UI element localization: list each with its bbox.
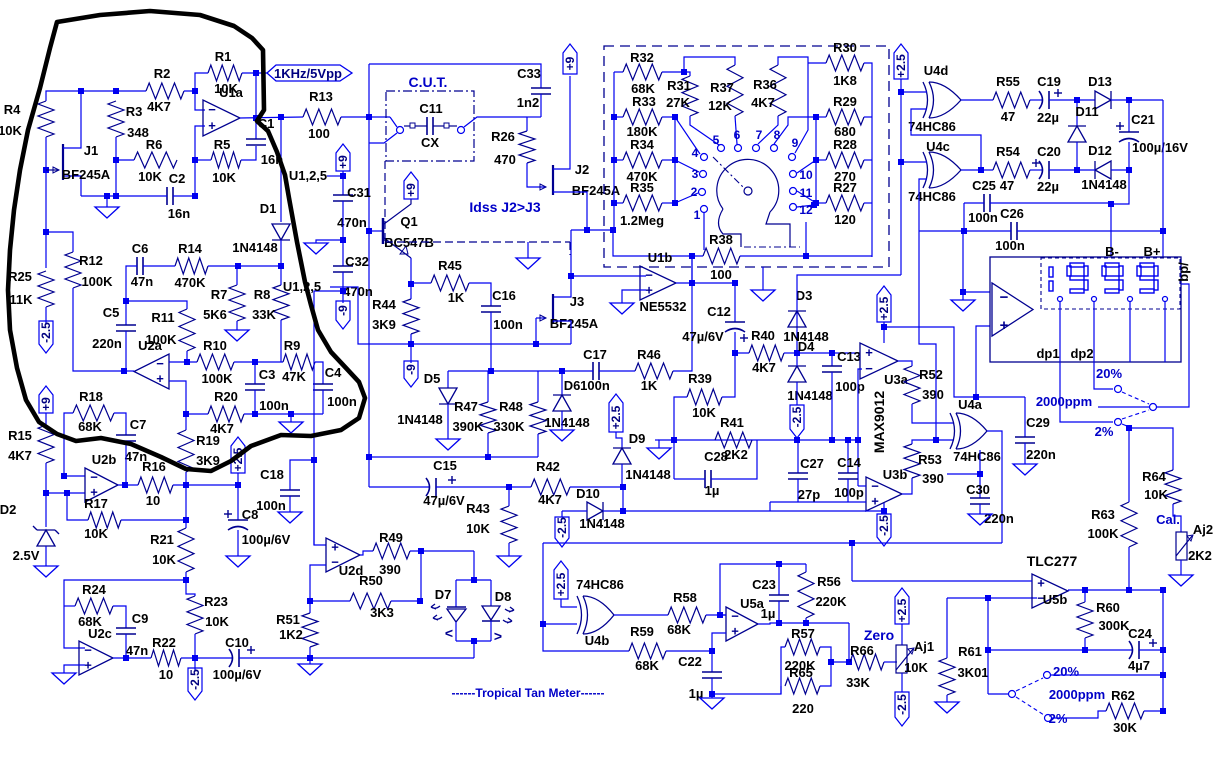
wire -2.5 rail y543 <box>543 542 1002 544</box>
wire U4d input a <box>901 91 927 93</box>
rotary bottom dash-dot <box>744 246 800 248</box>
svg-text:+: + <box>84 657 92 672</box>
node output junctions <box>776 620 782 626</box>
wire U3b output <box>902 478 912 494</box>
wire C22 bottom <box>711 678 713 694</box>
svg-text:C13: C13 <box>837 349 861 364</box>
node C13 bottom junction <box>829 437 835 443</box>
svg-text:100K: 100K <box>81 274 113 289</box>
node plus input junctions <box>43 490 49 496</box>
wire contact 4 link <box>675 117 700 154</box>
wire R5 leads <box>195 159 211 161</box>
svg-text:+: + <box>865 345 873 360</box>
resistor R49 <box>373 543 410 559</box>
wire U1a plus input <box>195 126 205 196</box>
node D6 top junction <box>559 368 565 374</box>
svg-text:−: − <box>731 609 739 624</box>
wire C25 leads <box>964 202 984 204</box>
wire D4 bottom <box>796 382 798 405</box>
rotary contact 1 <box>701 206 708 213</box>
svg-text:−: − <box>645 268 653 283</box>
diode D3 <box>796 311 798 353</box>
svg-text:R34: R34 <box>630 137 655 152</box>
wire C25 left down <box>963 203 965 231</box>
capacitor C29 <box>1015 436 1035 438</box>
svg-text:220n: 220n <box>1026 447 1056 462</box>
resistor R13 <box>303 109 341 125</box>
node y650 junction <box>985 647 991 653</box>
svg-text:R18: R18 <box>79 389 103 404</box>
power flag +2.5 U3a <box>877 286 891 322</box>
svg-text:C6: C6 <box>132 241 149 256</box>
svg-text:R39: R39 <box>688 371 712 386</box>
wire U5a minus up <box>720 564 806 615</box>
node R50 right junction <box>417 598 423 604</box>
node output junctions <box>689 280 695 286</box>
switch circle common bottom <box>1009 691 1016 698</box>
wire U3a output <box>898 361 912 366</box>
svg-text:4K7: 4K7 <box>8 448 32 463</box>
wire bottom bus y196 <box>81 195 167 197</box>
node R7 junction <box>235 263 241 269</box>
resistor R37 <box>727 65 743 116</box>
node gnd junction y414 <box>288 411 294 417</box>
wire R37 top <box>684 57 735 72</box>
svg-text:20%: 20% <box>1053 664 1079 679</box>
node minus junction <box>985 595 991 601</box>
svg-text:R54: R54 <box>996 144 1021 159</box>
svg-text:R25: R25 <box>8 269 32 284</box>
wire U1b minus to J3 drain rail <box>571 275 646 277</box>
wire C13 bottom <box>831 372 833 440</box>
wire R40 right <box>784 352 797 354</box>
resistor R30 <box>826 55 864 71</box>
svg-text:R15: R15 <box>8 428 32 443</box>
wire R35 right <box>662 202 675 204</box>
wire U4b bottom to R59 <box>543 624 629 651</box>
wire R29 right <box>864 116 872 118</box>
svg-text:<: < <box>445 625 453 641</box>
wire C15 R42 line <box>369 486 430 488</box>
capacitor C21 <box>1128 100 1130 132</box>
resistor R34 <box>614 159 623 161</box>
svg-text:6: 6 <box>734 128 741 142</box>
node output junctions U5b <box>1082 587 1088 593</box>
diode D8 photodiode <box>482 606 500 620</box>
svg-text:D4: D4 <box>798 339 815 354</box>
svg-text:R40: R40 <box>751 328 775 343</box>
wire bus y230 <box>571 229 614 231</box>
wire R58 right <box>706 614 726 616</box>
wire C28 right <box>711 440 757 479</box>
wire C14 bottom <box>847 479 849 502</box>
power flag -2.5 D10 <box>561 511 563 517</box>
svg-text:C16: C16 <box>492 288 516 303</box>
svg-text:100: 100 <box>308 126 330 141</box>
svg-text:4K7: 4K7 <box>147 99 171 114</box>
node plus junctions <box>192 157 198 163</box>
freehand highlight blob <box>8 11 365 471</box>
svg-text:MAX9012: MAX9012 <box>871 391 887 453</box>
capacitor C12 <box>734 283 736 322</box>
node R50 left junction <box>307 598 313 604</box>
wire R8 bottom to R9 <box>280 320 282 362</box>
wire x314 rail lower <box>314 460 326 545</box>
svg-text:-2.5: -2.5 <box>895 694 909 715</box>
wire common bottom <box>988 693 1008 695</box>
svg-text:C24: C24 <box>1128 626 1153 641</box>
svg-text:R56: R56 <box>817 574 841 589</box>
wire y440 threshold line <box>674 439 858 441</box>
resistor R41 <box>715 432 752 448</box>
svg-text:U1a: U1a <box>219 85 244 100</box>
wire U3b plus line <box>770 501 866 503</box>
resistor R25 <box>38 271 54 307</box>
node R66 feed junction <box>828 659 834 665</box>
svg-text:-9: -9 <box>336 305 350 316</box>
resistor R51 <box>309 601 311 613</box>
node bus junctions y230 <box>584 227 590 233</box>
wire U4b left bus <box>543 543 577 624</box>
svg-text:27K: 27K <box>666 95 690 110</box>
node output junction <box>278 114 284 120</box>
capacitor C17 <box>592 362 594 380</box>
svg-text:+2.5: +2.5 <box>609 405 623 429</box>
capacitor C4 <box>313 383 333 385</box>
svg-text:+9: +9 <box>404 183 418 197</box>
node R51 bottom junction <box>307 655 313 661</box>
rotary contact 3 <box>700 171 707 178</box>
resistor R61 <box>946 598 948 658</box>
power flag +9 R15 <box>39 386 53 413</box>
svg-text:2K2: 2K2 <box>1188 548 1212 563</box>
node C13 junction <box>829 350 835 356</box>
wire R20 right line <box>244 413 323 415</box>
switch circle 20pct <box>1115 386 1122 393</box>
capacitor C16 <box>481 305 501 307</box>
svg-text:10K: 10K <box>1144 487 1168 502</box>
wire D9 node down <box>622 487 624 511</box>
svg-text:390: 390 <box>922 471 944 486</box>
svg-text:-2.5: -2.5 <box>877 515 891 536</box>
node R17 junction <box>183 517 189 523</box>
wire R11 top branch <box>126 301 187 309</box>
svg-text:10K: 10K <box>466 521 490 536</box>
capacitor C26 <box>1010 222 1012 240</box>
svg-text:R14: R14 <box>178 241 203 256</box>
capacitor C11 <box>426 117 428 135</box>
svg-text:D11: D11 <box>1075 104 1098 119</box>
switch lever right <box>464 117 527 127</box>
svg-text:R3: R3 <box>126 104 143 119</box>
wire R30 left <box>808 62 826 64</box>
wire D9 top <box>616 432 622 448</box>
svg-text:U2c: U2c <box>88 626 112 641</box>
wire display plus input <box>976 326 990 397</box>
node gate junction <box>43 167 49 173</box>
resistor R22 <box>151 650 181 666</box>
svg-text:30K: 30K <box>1113 720 1137 735</box>
node bus junctions <box>104 193 110 199</box>
svg-text:100µ/6V: 100µ/6V <box>242 532 291 547</box>
resistor R54 <box>993 162 1030 178</box>
svg-text:8: 8 <box>774 128 781 142</box>
diode D1 <box>280 117 282 222</box>
wire U4a output <box>987 431 1002 543</box>
svg-text:10K: 10K <box>152 552 176 567</box>
svg-text:Q1: Q1 <box>400 214 417 229</box>
svg-text:1N4148: 1N4148 <box>544 415 590 430</box>
svg-text:100n: 100n <box>968 210 998 225</box>
wire R16 leads <box>118 484 138 486</box>
svg-text:bp/: bp/ <box>1176 262 1191 282</box>
svg-text:3K9: 3K9 <box>372 317 396 332</box>
wire R45 leads <box>411 282 431 284</box>
svg-text:U2b: U2b <box>92 452 117 467</box>
wire bottom bus to D7D8 <box>310 657 474 659</box>
node R23 bottom junction <box>192 655 198 661</box>
rotary contact 5 <box>718 145 725 152</box>
wire rect bottom to B- <box>1111 170 1129 257</box>
svg-text:47: 47 <box>1001 109 1015 124</box>
wire J2 source down <box>553 192 587 230</box>
wire contact11 link <box>797 191 816 203</box>
svg-text:2.5V: 2.5V <box>13 548 40 563</box>
wire D12 leads <box>1077 169 1095 171</box>
resistor R59 <box>629 643 666 659</box>
capacitor C31 <box>333 194 353 196</box>
ground C30 <box>979 504 981 514</box>
switch circle 2pct <box>1115 419 1122 426</box>
wire R36 bottom to contact7 <box>758 116 778 144</box>
svg-text:BF245A: BF245A <box>550 316 599 331</box>
wire rotary left bus <box>613 72 615 230</box>
wire U2c plus to ground <box>64 665 85 673</box>
wire R33 right <box>662 116 675 118</box>
capacitor C22 <box>702 671 722 673</box>
wire U2d output <box>360 551 373 555</box>
node C3 bottom <box>252 411 258 417</box>
svg-text:R27: R27 <box>833 180 857 195</box>
power flag -9 under C32 <box>336 301 350 329</box>
node R53 junction <box>933 437 939 443</box>
wire to C33 bottom node <box>527 116 541 118</box>
svg-text:U1b: U1b <box>648 250 673 265</box>
node U5a plus junction <box>709 648 715 654</box>
node U4b junction <box>540 621 546 627</box>
svg-text:R17: R17 <box>84 496 108 511</box>
ground C31 mid <box>316 240 343 243</box>
svg-text:R32: R32 <box>630 50 654 65</box>
resistor R14 <box>175 258 208 274</box>
wire y502 to -2.5 line <box>769 502 771 511</box>
resistor R62 <box>1106 703 1144 719</box>
ground D5 <box>447 404 449 439</box>
wire display minus branch <box>963 231 990 292</box>
resistor R1 <box>208 65 242 81</box>
wire Q1 emitter down <box>410 258 412 299</box>
svg-text:R60: R60 <box>1096 600 1120 615</box>
svg-text:220n: 220n <box>984 511 1014 526</box>
display op-amp <box>992 283 1033 336</box>
rotary contact 7 <box>753 145 760 152</box>
wire +2.5 branch right <box>884 327 1025 397</box>
svg-text:1N4148: 1N4148 <box>625 467 671 482</box>
svg-text:68K: 68K <box>635 658 659 673</box>
svg-text:16n: 16n <box>168 206 190 221</box>
resistor R17 <box>88 512 121 528</box>
svg-text:100n: 100n <box>256 498 286 513</box>
svg-text:C30: C30 <box>966 482 990 497</box>
rotary contact 4 <box>701 154 708 161</box>
svg-text:1N4148: 1N4148 <box>1081 177 1127 192</box>
svg-text:1K: 1K <box>448 290 465 305</box>
wire R28 right <box>864 159 872 161</box>
svg-text:-2.5: -2.5 <box>39 322 53 343</box>
svg-text:10K: 10K <box>904 660 928 675</box>
svg-text:1n2: 1n2 <box>517 95 539 110</box>
resistor R26 <box>519 131 535 163</box>
node signal junctions <box>366 114 372 120</box>
wire R12 bottom to U2a out <box>73 288 124 371</box>
node B- junction <box>1108 201 1114 207</box>
rotary contact 6 <box>735 145 742 152</box>
svg-text:U4a: U4a <box>958 397 983 412</box>
op-amp U1b <box>640 266 676 300</box>
dashed switch links bottom <box>1016 678 1043 691</box>
svg-text:220: 220 <box>792 701 814 716</box>
transistor J1 <box>62 144 64 180</box>
svg-text:74HC86: 74HC86 <box>908 119 956 134</box>
wire C23 bottom <box>778 601 780 623</box>
wire x675 bus <box>674 117 676 203</box>
wire R14 leads <box>143 265 175 267</box>
svg-text:R16: R16 <box>142 459 166 474</box>
svg-text:R4: R4 <box>4 102 21 117</box>
svg-text:C21: C21 <box>1131 112 1155 127</box>
wire R2 right to minus <box>184 91 205 110</box>
resistor R47 <box>487 371 489 402</box>
svg-text:R45: R45 <box>438 258 462 273</box>
resistor R31 <box>684 72 690 76</box>
wire U3b minus <box>858 485 866 487</box>
svg-text:C31: C31 <box>347 185 371 200</box>
wire C22 node to R65 <box>712 686 781 694</box>
resistor R6 <box>134 152 177 168</box>
svg-text:−: − <box>208 102 216 117</box>
node C31 junction <box>340 237 346 243</box>
node C3 top junction <box>252 359 258 365</box>
node C22 bottom junction <box>709 691 715 697</box>
node U125 junction <box>340 173 346 179</box>
svg-text:470: 470 <box>494 152 516 167</box>
capacitor C27 <box>797 440 799 473</box>
wire common to bp <box>1157 284 1189 407</box>
resistor R36 <box>770 65 786 116</box>
wire R6 left <box>116 159 134 161</box>
wire R1 left <box>195 73 208 91</box>
svg-text:300K: 300K <box>1098 618 1130 633</box>
node U3b power junction <box>881 508 887 514</box>
node D7D8 top junction <box>471 577 477 583</box>
diode D4 <box>788 365 806 367</box>
power flag +2.5 top right <box>894 44 908 79</box>
svg-text:1K2: 1K2 <box>279 627 303 642</box>
capacitor C2 <box>166 187 168 205</box>
wire R34 right <box>662 159 675 161</box>
wire R48 bottom <box>537 434 539 457</box>
wire D13 right <box>1111 99 1163 101</box>
svg-text:100K: 100K <box>201 371 233 386</box>
wire dp4 line <box>1164 301 1166 362</box>
wire y256 to bus <box>613 230 692 256</box>
node R16 junctions <box>183 482 189 488</box>
wire R63 bottom <box>1128 547 1130 590</box>
svg-text:5: 5 <box>713 133 720 147</box>
svg-text:R61: R61 <box>958 644 982 659</box>
svg-text:R58: R58 <box>673 590 697 605</box>
svg-text:R28: R28 <box>833 137 857 152</box>
svg-text:1N4148: 1N4148 <box>787 388 833 403</box>
node C21 top junction <box>1126 97 1132 103</box>
wire R52 bottom to U4a <box>912 404 954 423</box>
node R45 junction <box>408 281 414 287</box>
wire U3a minus down <box>858 369 862 486</box>
wire R1 right <box>242 72 267 74</box>
resistor R21 <box>178 528 194 572</box>
op-amp TLC277 U5b <box>1032 574 1068 608</box>
svg-text:R7: R7 <box>211 287 228 302</box>
svg-text:−: − <box>84 643 92 658</box>
svg-text:−: − <box>1000 289 1009 306</box>
svg-text:D12: D12 <box>1088 143 1112 158</box>
node R47 bottom junction <box>485 454 491 460</box>
svg-text:R24: R24 <box>82 582 107 597</box>
switch contact left <box>397 127 404 134</box>
resistor R18 <box>73 405 114 421</box>
rotary contact 10 <box>790 171 797 178</box>
wire R46 leads <box>599 370 635 372</box>
rotary contact 11 <box>790 188 797 195</box>
svg-text:47n: 47n <box>131 274 153 289</box>
capacitor C7 <box>114 413 126 435</box>
svg-text:390: 390 <box>379 562 401 577</box>
wire R56 bottom <box>805 618 807 623</box>
svg-text:Aj1: Aj1 <box>914 639 934 654</box>
svg-text:330K: 330K <box>493 419 525 434</box>
svg-text:R43: R43 <box>466 501 490 516</box>
wire contact10 link <box>797 160 816 173</box>
capacitor C8 <box>237 485 239 520</box>
svg-text:J3: J3 <box>570 294 584 309</box>
svg-text:1µ: 1µ <box>761 606 776 621</box>
capacitor C9 <box>113 606 126 628</box>
op-amp U1a <box>203 100 240 136</box>
ground C18 <box>289 496 291 512</box>
power flag -2.5 under R23 <box>194 658 196 670</box>
node R11 bottom <box>186 351 188 362</box>
svg-text:C19: C19 <box>1037 74 1061 89</box>
wire 2pct to R62 <box>1052 711 1106 718</box>
svg-text:−: − <box>90 470 98 485</box>
svg-text:20%: 20% <box>1096 366 1122 381</box>
resistor R60 <box>1084 590 1086 602</box>
wire R29 left <box>816 116 826 118</box>
svg-text:C20: C20 <box>1037 144 1061 159</box>
resistor R15 <box>45 413 47 425</box>
wire 20pct bottom <box>1051 674 1163 676</box>
seven segment digit 9a <box>1070 263 1084 267</box>
